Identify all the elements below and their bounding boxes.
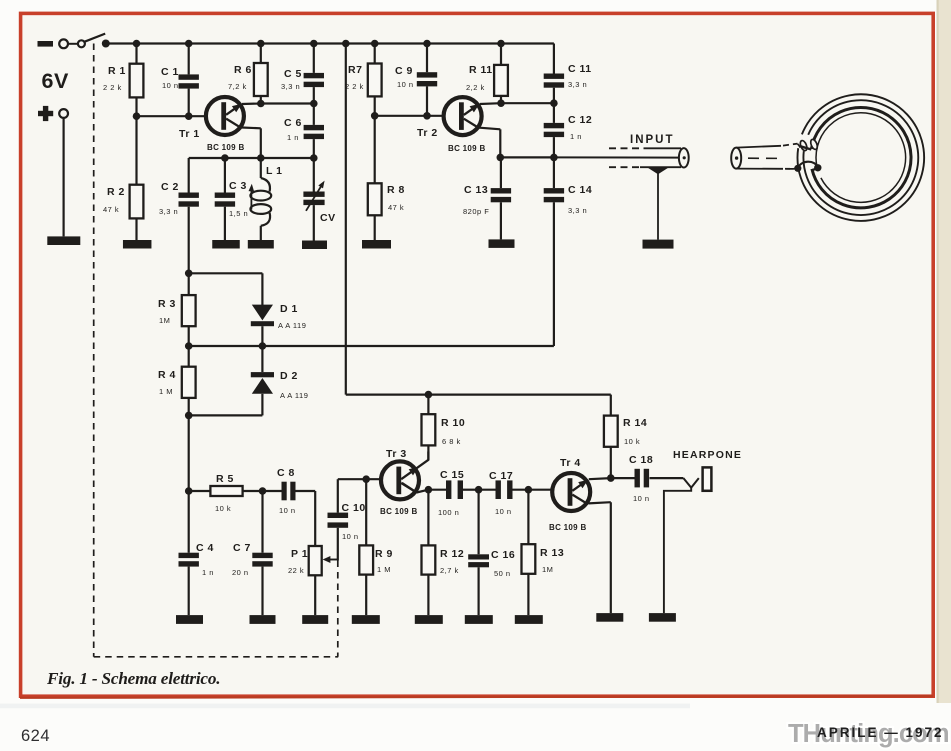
wire tank row (189, 158, 314, 193)
value C8 10n (279, 506, 296, 515)
svg-text:C 9: C 9 (395, 65, 413, 77)
svg-text:C 3: C 3 (229, 180, 247, 192)
label C6 (284, 117, 302, 129)
ground R8 (362, 240, 391, 249)
svg-text:C 10: C 10 (342, 502, 366, 514)
capacitor C11 (544, 44, 564, 104)
capacitor C6 (304, 104, 324, 159)
value C3 1,5n (229, 209, 248, 218)
svg-text:1 n: 1 n (202, 568, 214, 577)
label C1 (161, 66, 179, 78)
svg-text:C 8: C 8 (277, 467, 295, 479)
node R13 base Tr4 (525, 486, 533, 494)
node R11 collector (497, 99, 505, 107)
node rail x427 (423, 40, 431, 48)
headphone jack tip contact (683, 478, 698, 488)
ground C13 (489, 239, 515, 248)
node R7 R8 base (371, 112, 379, 120)
dashed box right edge (337, 561, 339, 657)
node C1 base (185, 112, 193, 120)
svg-text:47 k: 47 k (388, 203, 404, 212)
transistor Tr2 (444, 97, 482, 135)
node rail x136 (133, 40, 141, 48)
value R13 1M (542, 565, 553, 574)
dashed box left edge (93, 44, 95, 657)
transistor Tr3 (381, 461, 419, 499)
label Tr1 type (207, 143, 245, 152)
label C15 (440, 469, 464, 481)
ground C7 (250, 615, 276, 624)
svg-text:R 6: R 6 (234, 64, 252, 76)
node rail x501 (497, 40, 505, 48)
label Tr1 (179, 128, 200, 140)
svg-text:L 1: L 1 (266, 165, 282, 177)
label R1 (108, 65, 126, 77)
node rail x374 (371, 40, 379, 48)
wire base row Tr1 (137, 115, 206, 117)
value R11 2,2k (466, 83, 485, 92)
resistor R9 (359, 479, 373, 615)
node R1 R2 base (133, 112, 141, 120)
ground P1 (302, 615, 328, 624)
ground R9 (352, 615, 380, 624)
node switch to rail (102, 40, 110, 48)
wire jack sleeve (664, 488, 691, 613)
node R5 C7 C8 (259, 487, 267, 495)
capacitor C4 (179, 491, 199, 615)
resistor R3 (182, 273, 196, 346)
label Tr2 (417, 127, 438, 139)
value R6 7,2k (228, 82, 247, 91)
capacitor C8 (263, 482, 316, 501)
node D1 D2 mid (259, 342, 267, 350)
label R2 (107, 186, 125, 198)
node C2 R3 top (185, 270, 193, 278)
svg-text:1M: 1M (542, 565, 553, 574)
antenna shield opening ellipse 2 (809, 138, 818, 150)
inductor L1 tuning arrow (249, 184, 255, 210)
value C9 10n (397, 80, 414, 89)
svg-text:820p F: 820p F (463, 207, 489, 216)
antenna inner turn (816, 113, 906, 203)
svg-text:R 14: R 14 (623, 417, 647, 429)
svg-text:10 n: 10 n (279, 506, 296, 515)
node rail x260 (257, 40, 265, 48)
value R7 2,2k (345, 82, 364, 91)
svg-text:R 9: R 9 (375, 548, 393, 560)
battery plus circle (59, 109, 68, 118)
value C7 20n (232, 568, 249, 577)
svg-text:1 M: 1 M (159, 387, 173, 396)
svg-text:C 11: C 11 (568, 63, 592, 75)
svg-text:2 2 k: 2 2 k (103, 83, 122, 92)
resistor R12 (422, 490, 436, 615)
wire battery plus down (62, 118, 64, 236)
antenna coax center dashes (748, 157, 780, 159)
svg-text:2,7 k: 2,7 k (440, 566, 459, 575)
node C13 emitter (497, 154, 505, 162)
svg-text:10 n: 10 n (397, 80, 414, 89)
label INPUT (630, 134, 675, 146)
svg-text:2,2 k: 2,2 k (466, 83, 485, 92)
value C18 10n (633, 494, 650, 503)
resistor R8 (368, 116, 382, 240)
resistor R2 (130, 116, 144, 240)
antenna terminal dot 1 (794, 165, 801, 172)
resistor R11 (494, 44, 508, 104)
node CV tank (310, 154, 318, 162)
label C4 (196, 542, 214, 554)
ground CV (302, 241, 327, 250)
wire Tr1 collector to R6 (242, 102, 261, 105)
label L1 (266, 165, 282, 177)
value R2 47k (103, 205, 119, 214)
value C17 10n (495, 507, 512, 516)
svg-text:22 k: 22 k (288, 566, 304, 575)
svg-text:R 10: R 10 (441, 417, 465, 429)
svg-text:CV: CV (320, 212, 336, 224)
label C10 (342, 502, 366, 514)
svg-text:Tr 4: Tr 4 (560, 457, 581, 469)
capacitor C7 (252, 491, 272, 615)
label C11 (568, 63, 592, 75)
svg-text:D 1: D 1 (280, 303, 298, 315)
ground battery (47, 236, 80, 245)
svg-text:BC 109 B: BC 109 B (207, 143, 245, 152)
value D2 AA119 (280, 391, 308, 400)
label D1 (280, 303, 298, 315)
label R13 (540, 547, 564, 559)
wire base row Tr2 (375, 115, 444, 117)
battery plus terminal (38, 106, 53, 121)
svg-text:C 16: C 16 (491, 549, 515, 561)
svg-text:7,2 k: 7,2 k (228, 82, 247, 91)
label R3 (158, 298, 176, 310)
value R10 68k (442, 437, 461, 446)
wire Tr2 emitter (480, 128, 501, 158)
svg-text:R 3: R 3 (158, 298, 176, 310)
label P1 (291, 548, 308, 560)
label C17 (489, 470, 513, 482)
svg-text:Tr 3: Tr 3 (386, 448, 407, 460)
label C7 (233, 542, 251, 554)
value C10 10n (342, 532, 359, 541)
svg-text:20 n: 20 n (232, 568, 249, 577)
svg-text:2 2 k: 2 2 k (345, 82, 364, 91)
antenna coax neck (786, 144, 800, 169)
value C4 1n (202, 568, 214, 577)
value R5 10k (215, 504, 231, 513)
wire Tr4 collector (589, 478, 611, 479)
capacitor C12 (544, 103, 564, 157)
diode D1 (251, 273, 274, 346)
node C15 C17 junction (475, 486, 483, 494)
label C14 (568, 184, 592, 196)
node R5 node (185, 487, 193, 495)
node rail x313 (310, 40, 318, 48)
node C5 C6 junction (310, 100, 318, 108)
resistor R14 (604, 416, 618, 479)
node C11 C12 junction (550, 99, 558, 107)
antenna shield inner ring (803, 100, 918, 215)
svg-text:C 7: C 7 (233, 542, 251, 554)
label Tr3 type (380, 507, 418, 516)
svg-text:C 14: C 14 (568, 184, 592, 196)
capacitor C16 (468, 490, 489, 615)
label Tr4 (560, 457, 581, 469)
svg-text:C 13: C 13 (464, 184, 488, 196)
svg-text:3,3 n: 3,3 n (568, 80, 587, 89)
antenna shield opening ellipse 1 (799, 140, 808, 152)
label C16 (491, 549, 515, 561)
resistor R4 (182, 346, 196, 415)
ground input shield (643, 240, 674, 249)
value C5 3,3n (281, 82, 300, 91)
node R9 base (362, 475, 370, 483)
CV arrow (306, 181, 325, 211)
svg-text:1M: 1M (159, 316, 170, 325)
svg-text:624: 624 (21, 727, 50, 745)
capacitor C15 (428, 480, 478, 499)
value R4 1M (159, 387, 173, 396)
svg-text:10 k: 10 k (215, 504, 231, 513)
label CV (320, 212, 336, 224)
wire audio supply horizontal (346, 395, 611, 416)
value R1 22k (103, 83, 122, 92)
label HEARPONE (673, 449, 742, 461)
label C5 (284, 68, 302, 80)
capacitor C10 column (328, 479, 349, 560)
wire Tr3 emitter (402, 483, 428, 493)
svg-text:C 18: C 18 (629, 454, 653, 466)
antenna crossover link (798, 162, 818, 169)
svg-text:10 k: 10 k (624, 437, 640, 446)
label C9 (395, 65, 413, 77)
node C3 tank (221, 154, 229, 162)
page edge beige strip (937, 0, 951, 703)
label D2 (280, 370, 298, 382)
label C2 (161, 181, 179, 193)
resistor R1 (130, 44, 144, 117)
transistor Tr4 (552, 473, 590, 511)
svg-text:R 13: R 13 (540, 547, 564, 559)
resistor R6 (254, 44, 268, 104)
fold band below frame (0, 704, 690, 709)
svg-text:1 M: 1 M (377, 565, 391, 574)
svg-text:47 k: 47 k (103, 205, 119, 214)
svg-text:R 12: R 12 (440, 548, 464, 560)
capacitor C17 (479, 480, 552, 499)
svg-text:C 1: C 1 (161, 66, 179, 78)
svg-text:C 15: C 15 (440, 469, 464, 481)
ground R13 (515, 615, 543, 624)
ground Tr4 emitter (596, 613, 623, 622)
wire D2 to R4 bottom (189, 414, 263, 416)
label R8 (387, 184, 405, 196)
label R9 (375, 548, 393, 560)
svg-text:BC 109 B: BC 109 B (448, 144, 486, 153)
switch lever (84, 34, 105, 42)
wire Tr4 emitter (589, 502, 611, 613)
label R12 (440, 548, 464, 560)
value C13 820pF (463, 207, 489, 216)
wire audio supply vertical (345, 44, 347, 395)
value D1 AA119 (278, 321, 306, 330)
svg-text:C 2: C 2 (161, 181, 179, 193)
svg-text:C 17: C 17 (489, 470, 513, 482)
value C1 10n (162, 81, 179, 90)
ground R12 (415, 615, 443, 624)
label R7 (348, 64, 362, 76)
ground C16 (465, 615, 493, 624)
svg-text:R7: R7 (348, 64, 362, 76)
antenna coax top edge (736, 144, 797, 148)
svg-text:6V: 6V (42, 69, 69, 93)
wire detector down to audio (188, 415, 190, 491)
svg-text:Fig. 1 - Schema elettrico.: Fig. 1 - Schema elettrico. (46, 669, 220, 688)
svg-text:P 1: P 1 (291, 548, 308, 560)
label C18 (629, 454, 653, 466)
node L1 tank (257, 154, 265, 162)
capacitor C5 (304, 44, 324, 104)
node rail x345 (342, 40, 350, 48)
svg-text:100 n: 100 n (438, 508, 459, 517)
wire Tr3 collector (401, 452, 428, 480)
wire emitter row2 (500, 156, 554, 158)
svg-text:1,5 n: 1,5 n (229, 209, 248, 218)
P1 wiper arrow (323, 556, 338, 563)
inductor L1 (250, 158, 271, 240)
svg-text:3,3 n: 3,3 n (159, 207, 178, 216)
svg-text:C 12: C 12 (568, 114, 592, 126)
capacitor C2 (179, 193, 199, 274)
wire collector row to C5 C6 (261, 102, 314, 104)
wire C2 node to D1 (189, 272, 263, 274)
svg-text:A A 119: A A 119 (278, 321, 306, 330)
dashed box bottom edge (94, 656, 339, 658)
label R5 (216, 473, 234, 485)
wire Tr2 collector to R11 (480, 102, 501, 105)
label R4 (158, 369, 176, 381)
label C3 (229, 180, 247, 192)
value C11 3,3n (568, 80, 587, 89)
value R14 10k (624, 437, 640, 446)
transistor Tr1 (206, 97, 244, 135)
antenna conductor lower end (812, 168, 817, 170)
resistor R5 (189, 486, 263, 496)
antenna coax bottom edge (736, 168, 793, 170)
label R14 (623, 417, 647, 429)
capacitor C13 (491, 157, 511, 239)
label C13 (464, 184, 488, 196)
svg-text:10 n: 10 n (495, 507, 512, 516)
ground jack (649, 613, 676, 622)
label C12 (568, 114, 592, 126)
value C16 50n (494, 569, 511, 578)
battery minus terminal (38, 41, 54, 47)
headphone jack body (703, 467, 712, 490)
wire input center (554, 156, 681, 158)
svg-text:1 n: 1 n (570, 132, 582, 141)
svg-text:10 n: 10 n (162, 81, 179, 90)
value P1 22k (288, 566, 304, 575)
value C6 1n (287, 133, 299, 142)
resistor R7 (368, 44, 382, 116)
antenna shield outer ring (797, 94, 924, 221)
capacitor C1 (179, 44, 199, 117)
svg-text:R 11: R 11 (469, 64, 493, 76)
svg-text:Tr 2: Tr 2 (417, 127, 438, 139)
node R14 collector C18 (607, 474, 615, 482)
value R8 47k (388, 203, 404, 212)
svg-text:R 2: R 2 (107, 186, 125, 198)
input cylinder bottom (609, 166, 681, 168)
svg-text:C 4: C 4 (196, 542, 214, 554)
svg-text:3,3 n: 3,3 n (568, 206, 587, 215)
node R3 R4 mid (185, 342, 193, 350)
input shield tap (647, 167, 669, 174)
svg-text:R 1: R 1 (108, 65, 126, 77)
svg-text:C 5: C 5 (284, 68, 302, 80)
label Tr3 (386, 448, 407, 460)
value C12 1n (570, 132, 582, 141)
node C14 input (550, 154, 558, 162)
wire top supply rail (106, 42, 554, 44)
wire collector row2 (501, 102, 554, 104)
svg-text:Tr 1: Tr 1 (179, 128, 200, 140)
wire input shield down (657, 172, 659, 240)
value C14 3,3n (568, 206, 587, 215)
svg-text:D 2: D 2 (280, 370, 298, 382)
resistor R13 (522, 490, 536, 615)
node R10 supply (425, 391, 433, 399)
svg-text:BC 109 B: BC 109 B (549, 523, 587, 532)
value R3 1M (159, 316, 170, 325)
svg-text:INPUT: INPUT (630, 134, 675, 146)
antenna conductor upper end (800, 146, 811, 149)
svg-text:50 n: 50 n (494, 569, 511, 578)
switch contact circle 1 (59, 39, 78, 48)
capacitor C3 (215, 158, 235, 240)
label C8 (277, 467, 295, 479)
label R6 (234, 64, 252, 76)
ground L1 (248, 240, 274, 249)
svg-text:R 4: R 4 (158, 369, 176, 381)
label Tr2 type (448, 144, 486, 153)
antenna loop conductor (811, 107, 911, 207)
diode D2 (251, 346, 274, 415)
svg-text:3,3 n: 3,3 n (281, 82, 300, 91)
capacitor C9 (417, 44, 437, 116)
svg-text:HEARPONE: HEARPONE (673, 449, 742, 461)
svg-text:R 5: R 5 (216, 473, 234, 485)
label R11 (469, 64, 493, 76)
potentiometer P1 (309, 491, 322, 615)
ground R2 (123, 240, 152, 249)
capacitor C18 (611, 469, 684, 488)
capacitor C14 (544, 157, 564, 346)
value C2 3,3n (159, 207, 178, 216)
node Tr3 emitter (425, 486, 433, 494)
svg-text:10 n: 10 n (633, 494, 650, 503)
value R12 2,7k (440, 566, 459, 575)
ground C4 (176, 615, 203, 624)
svg-text:6 8 k: 6 8 k (442, 437, 461, 446)
wire detector row (189, 345, 554, 347)
resistor R10 (422, 395, 436, 461)
label R10 (441, 417, 465, 429)
variable capacitor CV (303, 158, 324, 241)
